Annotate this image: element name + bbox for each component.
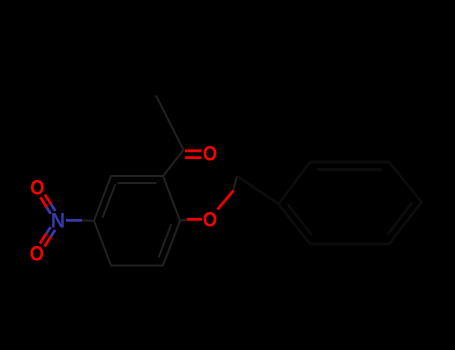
svg-text:O: O	[30, 177, 44, 200]
svg-text:N: N	[51, 210, 65, 233]
svg-text:O: O	[203, 143, 217, 166]
svg-text:O: O	[203, 209, 217, 232]
svg-text:O: O	[30, 243, 44, 266]
